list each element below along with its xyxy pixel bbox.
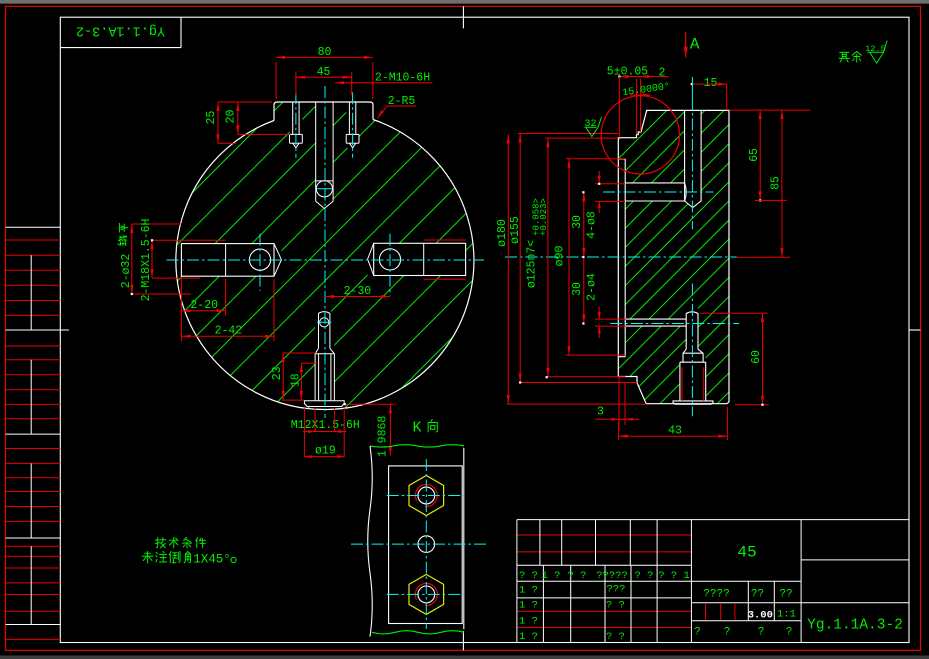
- svg-text:ø90: ø90: [554, 246, 567, 267]
- svg-text:?: ?: [694, 627, 701, 639]
- svg-text:2-20: 2-20: [190, 299, 218, 312]
- svg-text:??: ??: [779, 589, 792, 601]
- svg-text:? ?: ? ?: [635, 570, 654, 582]
- svg-text:? ?: ? ?: [606, 631, 625, 643]
- svg-text:2-ø4: 2-ø4: [586, 273, 599, 301]
- svg-text:Yg.1.1A.3-2: Yg.1.1A.3-2: [76, 23, 165, 38]
- svg-text:60: 60: [750, 350, 763, 364]
- svg-text:? ?: ? ?: [519, 570, 538, 582]
- svg-text:+0.023>: +0.023>: [539, 198, 549, 236]
- svg-text:1X45°: 1X45°: [193, 553, 231, 567]
- svg-text:ø155: ø155: [509, 216, 522, 244]
- svg-text:15: 15: [704, 77, 718, 90]
- svg-text:30: 30: [571, 282, 584, 296]
- svg-text:? ?: ? ?: [606, 600, 625, 612]
- svg-text:1:1: 1:1: [777, 609, 796, 621]
- svg-text:2-ø32: 2-ø32: [120, 254, 133, 289]
- svg-text:3.00: 3.00: [748, 610, 773, 622]
- svg-text:2-30: 2-30: [344, 285, 372, 298]
- svg-text:2-M18X1.5-6H: 2-M18X1.5-6H: [140, 219, 153, 302]
- svg-text:1 ?: 1 ?: [519, 600, 538, 612]
- svg-text:ø180: ø180: [496, 219, 509, 247]
- svg-text:25: 25: [205, 111, 218, 125]
- svg-text:? ? 1: ? ? 1: [658, 570, 690, 582]
- svg-text:ø19: ø19: [315, 444, 336, 457]
- svg-text:? ?: ? ?: [568, 570, 587, 582]
- svg-text:K: K: [412, 420, 421, 437]
- svg-text:?: ?: [724, 627, 731, 639]
- svg-text:2-M10-6H: 2-M10-6H: [375, 72, 430, 85]
- svg-text:??: ??: [751, 589, 764, 601]
- svg-text:23: 23: [271, 366, 284, 380]
- svg-text:Yg.1.1A.3-2: Yg.1.1A.3-2: [807, 618, 903, 634]
- svg-text:M12X1.5-6H: M12X1.5-6H: [291, 419, 360, 432]
- svg-text:1 ?: 1 ?: [519, 616, 538, 628]
- svg-text:ø125n7<: ø125n7<: [526, 240, 539, 288]
- svg-text:18: 18: [289, 373, 302, 387]
- svg-text:80: 80: [318, 46, 332, 59]
- svg-text:?????: ?????: [596, 570, 628, 582]
- svg-text:20: 20: [225, 110, 238, 124]
- svg-text:1.9868: 1.9868: [377, 416, 390, 458]
- svg-text:43: 43: [668, 425, 682, 438]
- svg-text:45: 45: [737, 544, 756, 562]
- svg-text:85: 85: [770, 176, 783, 190]
- svg-text:?: ?: [786, 627, 793, 639]
- svg-text:65: 65: [748, 148, 761, 162]
- svg-text:A: A: [690, 36, 700, 54]
- svg-text:1 ?: 1 ?: [519, 631, 538, 643]
- svg-text:?: ?: [758, 627, 765, 639]
- svg-text:3: 3: [597, 406, 604, 419]
- svg-text:30: 30: [571, 215, 584, 229]
- svg-text:???: ???: [607, 584, 626, 596]
- svg-text:2-42: 2-42: [215, 325, 243, 338]
- svg-text:2: 2: [659, 67, 666, 80]
- svg-text:2-R5: 2-R5: [388, 95, 416, 108]
- svg-text:????: ????: [703, 589, 729, 601]
- svg-text:1 ?: 1 ?: [519, 585, 538, 597]
- svg-text:1 ?: 1 ?: [542, 570, 561, 582]
- svg-text:45: 45: [317, 66, 331, 79]
- svg-text:4-ø8: 4-ø8: [586, 211, 599, 239]
